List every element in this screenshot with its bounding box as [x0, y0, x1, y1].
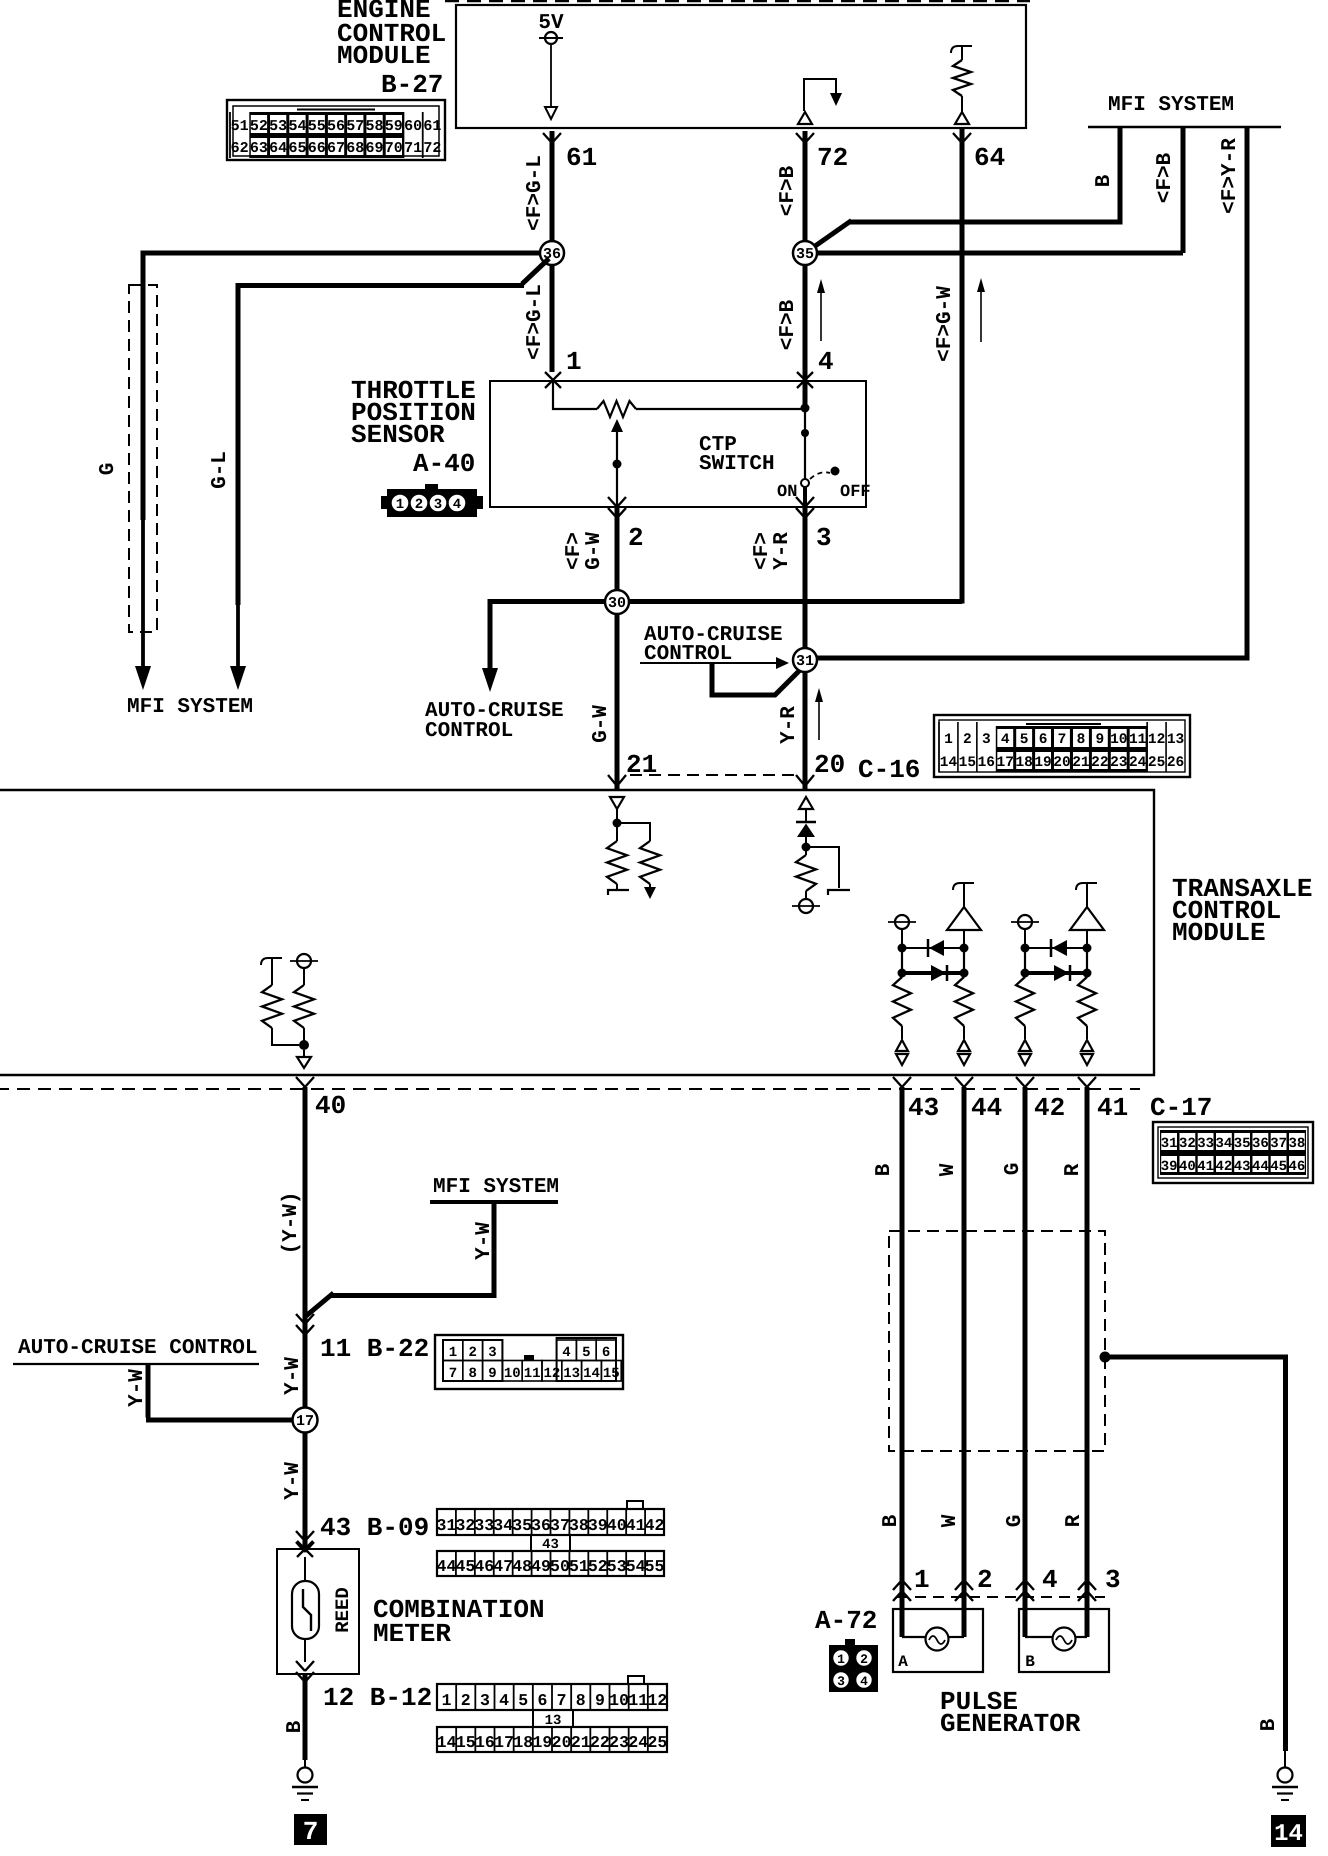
svg-text:60: 60 [404, 118, 422, 135]
svg-text:2: 2 [628, 523, 644, 553]
svg-text:B: B [873, 1163, 896, 1176]
svg-text:3: 3 [434, 497, 442, 513]
ground right [1272, 1768, 1298, 1801]
svg-text:5: 5 [582, 1345, 590, 1361]
svg-text:(Y-W): (Y-W) [280, 1191, 303, 1254]
label C-17 [1150, 1093, 1212, 1123]
signal direction arrow wire 4 [817, 279, 825, 341]
svg-text:11: 11 [524, 1366, 541, 1382]
svg-text:39: 39 [588, 1516, 608, 1535]
svg-text:41: 41 [1197, 1159, 1214, 1175]
svg-text:52: 52 [588, 1557, 608, 1576]
svg-text:66: 66 [308, 140, 326, 157]
svg-text:63: 63 [250, 140, 268, 157]
svg-text:52: 52 [250, 118, 268, 135]
svg-text:<F>G-L: <F>G-L [524, 155, 547, 231]
svg-text:19: 19 [1034, 755, 1051, 771]
svg-text:43: 43 [908, 1093, 939, 1123]
svg-text:64: 64 [269, 140, 287, 157]
svg-text:12: 12 [648, 1691, 668, 1710]
dashed connector line C-17 [0, 1088, 1140, 1090]
svg-text:OFF: OFF [840, 483, 871, 502]
svg-text:3: 3 [488, 1345, 496, 1361]
svg-text:54: 54 [288, 118, 306, 135]
combination meter box [277, 1549, 359, 1674]
wire 42 to pulse gen [1023, 1087, 1028, 1637]
svg-text:40: 40 [315, 1091, 346, 1121]
svg-text:CONTROL: CONTROL [425, 720, 513, 743]
svg-text:7: 7 [557, 1691, 567, 1710]
MFI SYSTEM bus top right [1088, 94, 1281, 127]
splice 17 [293, 1408, 318, 1433]
label B w43 [873, 1163, 896, 1176]
label <F> Y-R wire3 [751, 532, 794, 570]
svg-text:35: 35 [796, 246, 814, 263]
svg-text:65: 65 [288, 140, 306, 157]
svg-text:B: B [880, 1514, 903, 1527]
wire Y-W from MFI to wire40 [306, 1202, 497, 1316]
throttle position sensor box [490, 381, 866, 507]
svg-text:AUTO-CRUISE CONTROL: AUTO-CRUISE CONTROL [18, 1337, 257, 1360]
svg-text:GENERATOR: GENERATOR [940, 1709, 1081, 1739]
svg-text:25: 25 [1148, 755, 1165, 771]
harness dashed box right [889, 1231, 1105, 1451]
svg-text:56: 56 [327, 118, 345, 135]
connector A-40 [381, 484, 483, 517]
svg-text:17: 17 [997, 755, 1014, 771]
svg-text:7: 7 [1058, 732, 1067, 748]
svg-text:51: 51 [569, 1557, 589, 1576]
label (Y-W) [280, 1191, 303, 1254]
label R w41 [1062, 1163, 1085, 1176]
svg-text:<F>G-W: <F>G-W [934, 286, 957, 362]
svg-text:32: 32 [1179, 1136, 1196, 1152]
svg-text:MFI SYSTEM: MFI SYSTEM [127, 696, 253, 719]
svg-text:W: W [937, 1163, 960, 1176]
ECM terminal 61 [543, 133, 597, 173]
svg-text:72: 72 [817, 143, 848, 173]
svg-text:55: 55 [645, 1557, 665, 1576]
label B left [284, 1720, 307, 1733]
combination meter label [373, 1595, 545, 1649]
wire to auto-cruise arrow left [482, 599, 498, 692]
connector B-09 pinout [437, 1501, 665, 1576]
svg-text:18: 18 [1015, 755, 1032, 771]
svg-text:2: 2 [977, 1565, 993, 1595]
auto-cruise pointer arrow [640, 657, 789, 669]
svg-text:15: 15 [959, 755, 976, 771]
svg-text:43 B-09: 43 B-09 [320, 1513, 429, 1543]
svg-text:8: 8 [1077, 732, 1086, 748]
svg-text:G-W: G-W [583, 532, 606, 570]
svg-text:11 B-22: 11 B-22 [320, 1334, 429, 1364]
approach chevrons meter [296, 1531, 314, 1552]
TCM pin20 resistor [792, 855, 820, 913]
svg-text:R: R [1063, 1514, 1086, 1527]
wire 43 to pulse gen [900, 1087, 905, 1637]
label 21 [626, 750, 657, 780]
label Y-W mid [473, 1222, 496, 1260]
svg-text:2: 2 [461, 1691, 471, 1710]
svg-text:4: 4 [453, 497, 461, 513]
C-17 terminal 41 [1078, 1077, 1128, 1123]
svg-text:10: 10 [1110, 732, 1127, 748]
svg-text:4: 4 [499, 1691, 509, 1710]
svg-text:21: 21 [1072, 755, 1090, 771]
svg-text:50: 50 [550, 1557, 570, 1576]
label G-W below 30 [590, 705, 613, 743]
svg-text:5: 5 [518, 1691, 528, 1710]
TPS pin 4 mark [797, 347, 834, 388]
svg-text:41: 41 [1097, 1093, 1128, 1123]
svg-text:34: 34 [493, 1516, 513, 1535]
svg-text:14: 14 [1274, 1821, 1303, 1848]
svg-text:36: 36 [531, 1516, 551, 1535]
wire Y-W from auto-cruise to splice 17 [146, 1364, 294, 1420]
connector A-72 [829, 1639, 878, 1692]
svg-text:61: 61 [566, 143, 597, 173]
connector C-17 pinout [1153, 1122, 1313, 1183]
tap to ground branch [1100, 1352, 1286, 1768]
svg-text:Y-R: Y-R [771, 532, 794, 570]
svg-text:SWITCH: SWITCH [699, 453, 775, 476]
label <F>B right [1154, 152, 1177, 203]
label B [1093, 174, 1116, 187]
svg-text:20: 20 [814, 750, 845, 780]
label R lower w41 [1063, 1514, 1086, 1527]
svg-text:R: R [1062, 1163, 1085, 1176]
svg-text:67: 67 [327, 140, 345, 157]
wire 64 to splice 30 [960, 127, 965, 604]
svg-text:3: 3 [480, 1691, 490, 1710]
svg-text:17: 17 [296, 1413, 314, 1430]
svg-text:46: 46 [1288, 1159, 1305, 1175]
label <F> G-W wire2 [563, 532, 606, 570]
svg-text:20: 20 [1053, 755, 1070, 771]
transaxle control module box [0, 790, 1154, 1075]
svg-text:57: 57 [346, 118, 364, 135]
meter exit chevrons [296, 1661, 314, 1682]
TPS potentiometer [553, 381, 805, 417]
svg-text:G: G [97, 463, 120, 476]
svg-text:13: 13 [563, 1366, 580, 1382]
TPS wiper arrow [611, 419, 623, 507]
svg-text:W: W [939, 1514, 962, 1527]
svg-text:10: 10 [609, 1691, 629, 1710]
page ref 14 [1271, 1815, 1306, 1848]
ground left [292, 1768, 318, 1801]
TPS terminal 3 chevrons [796, 497, 814, 518]
svg-text:13: 13 [545, 1713, 562, 1729]
label 11 B-22 [320, 1334, 429, 1364]
C-17 terminal 40 [296, 1077, 346, 1121]
svg-text:58: 58 [366, 118, 384, 135]
svg-text:22: 22 [1091, 755, 1108, 771]
svg-text:4: 4 [1042, 1565, 1058, 1595]
TCM pin 40 pullup pair [261, 954, 318, 1068]
svg-text:23: 23 [1110, 755, 1127, 771]
svg-text:3: 3 [816, 523, 832, 553]
svg-text:42: 42 [645, 1516, 665, 1535]
splice 30 circle [605, 590, 629, 614]
svg-text:ON: ON [777, 483, 797, 502]
ECM terminal 72 [796, 133, 848, 173]
svg-text:8: 8 [576, 1691, 586, 1710]
svg-text:45: 45 [1270, 1159, 1287, 1175]
svg-text:37: 37 [1270, 1136, 1287, 1152]
svg-text:B: B [1093, 174, 1116, 187]
svg-text:4: 4 [1001, 732, 1010, 748]
svg-text:C-17: C-17 [1150, 1093, 1212, 1123]
connector B-12 pinout [437, 1676, 668, 1752]
dashed connector line C-16 [630, 774, 795, 776]
label <F>Y-R [1219, 138, 1242, 214]
svg-text:2: 2 [468, 1345, 476, 1361]
C-16 terminal 20 chevron [796, 775, 814, 786]
label B lower w43 [880, 1514, 903, 1527]
svg-text:A-40: A-40 [413, 449, 475, 479]
svg-text:36: 36 [1252, 1136, 1269, 1152]
pulse generator A box [893, 1609, 983, 1672]
pulse gen entry chevrons 1 [893, 1580, 911, 1601]
svg-text:9: 9 [1095, 732, 1104, 748]
svg-text:53: 53 [269, 118, 287, 135]
svg-text:24: 24 [628, 1733, 648, 1752]
svg-text:9: 9 [595, 1691, 605, 1710]
svg-text:SENSOR: SENSOR [351, 420, 445, 450]
engine control module box B-27 [445, 1, 1030, 128]
label REED [332, 1587, 354, 1633]
CTP switch label [699, 434, 775, 476]
svg-text:25: 25 [648, 1733, 668, 1752]
svg-text:16: 16 [978, 755, 995, 771]
label 43 B-09 [320, 1513, 429, 1543]
pulse gen pin 4 [1042, 1565, 1058, 1595]
svg-text:4: 4 [860, 1674, 868, 1689]
svg-text:5: 5 [1020, 732, 1029, 748]
svg-text:62: 62 [231, 140, 249, 157]
svg-text:44: 44 [1252, 1159, 1269, 1175]
svg-text:<F>B: <F>B [777, 165, 800, 216]
svg-text:MODULE: MODULE [1172, 918, 1266, 948]
MFI SYSTEM label bottom left [127, 696, 253, 719]
label Y-W auto-cruise [126, 1369, 149, 1407]
svg-text:1: 1 [944, 732, 953, 748]
svg-text:42: 42 [1215, 1159, 1232, 1175]
svg-text:3: 3 [982, 732, 991, 748]
svg-text:1: 1 [449, 1345, 457, 1361]
meter entry mark [297, 1541, 313, 1557]
C-17 terminal 44 [955, 1077, 1002, 1123]
auto-cruise control stub [13, 1337, 259, 1364]
C-16 terminal 21 chevron [608, 775, 626, 786]
label 2 [628, 523, 644, 553]
svg-text:47: 47 [493, 1557, 513, 1576]
svg-text:Y-W: Y-W [282, 1462, 305, 1500]
pulse generator B box [1019, 1609, 1109, 1672]
svg-text:18: 18 [513, 1733, 533, 1752]
svg-text:7: 7 [449, 1366, 457, 1382]
TCM pin 21 input triangle [610, 797, 624, 841]
svg-text:35: 35 [1234, 1136, 1251, 1152]
label G w42 [1002, 1163, 1025, 1176]
svg-text:43: 43 [542, 1537, 559, 1553]
svg-text:40: 40 [1179, 1159, 1196, 1175]
svg-text:11: 11 [1129, 732, 1147, 748]
svg-text:A-72: A-72 [815, 1606, 877, 1636]
svg-text:20: 20 [552, 1733, 572, 1752]
node TPS pin4 branch [801, 404, 810, 480]
svg-text:15: 15 [603, 1366, 620, 1382]
svg-text:43: 43 [1234, 1159, 1251, 1175]
svg-text:49: 49 [531, 1557, 551, 1576]
svg-text:6: 6 [1039, 732, 1048, 748]
label <F>G-L lower [524, 284, 547, 360]
svg-text:4: 4 [562, 1345, 570, 1361]
connector B-22 pinout [435, 1335, 623, 1389]
svg-text:7: 7 [303, 1817, 319, 1847]
svg-text:14: 14 [940, 755, 958, 771]
wire 3 to C-16 pin 20 [803, 507, 808, 790]
wire 44 to pulse gen [962, 1087, 967, 1637]
svg-text:40: 40 [607, 1516, 627, 1535]
svg-text:12 B-12: 12 B-12 [323, 1683, 432, 1713]
reed switch [292, 1557, 319, 1662]
wire 41 to pulse gen [1085, 1087, 1090, 1637]
svg-text:45: 45 [455, 1557, 475, 1576]
svg-text:B: B [1258, 1718, 1281, 1731]
auto-cruise control label mid [644, 624, 783, 666]
svg-text:11: 11 [628, 1691, 648, 1710]
TCM pin21 branch [617, 823, 650, 841]
connector C-16 pinout [934, 715, 1190, 777]
svg-text:42: 42 [1034, 1093, 1065, 1123]
TCM pin21 resistor right [640, 841, 660, 899]
svg-text:71: 71 [404, 140, 422, 157]
wire <F>Y-R from MFI to splice 31 [812, 127, 1250, 658]
engine control module label [337, 0, 446, 100]
svg-text:31: 31 [796, 653, 814, 670]
harness dashed box left [129, 285, 157, 632]
svg-text:30: 30 [608, 595, 626, 612]
svg-text:1: 1 [914, 1565, 930, 1595]
svg-text:3: 3 [837, 1674, 845, 1689]
wire 61 to TPS pin 1 [550, 131, 555, 372]
label B right ground [1258, 1718, 1281, 1731]
svg-text:8: 8 [468, 1366, 476, 1382]
svg-text:34: 34 [1215, 1136, 1232, 1152]
merge chevrons wire 40 [296, 1314, 314, 1335]
signal direction arrow wire 64 [977, 278, 985, 342]
wire 2 to C-16 pin 21 [615, 507, 620, 790]
svg-text:G-W: G-W [590, 705, 613, 743]
ECM output driver symbol pin 72 [798, 79, 842, 124]
svg-text:41: 41 [626, 1516, 646, 1535]
pulse gen entry chevrons 4 [1016, 1580, 1034, 1601]
svg-text:33: 33 [474, 1516, 494, 1535]
wire elbow from auto-cruise to splice 31 [712, 662, 800, 695]
svg-text:2: 2 [860, 1652, 868, 1667]
svg-text:69: 69 [366, 140, 384, 157]
svg-text:<F>G-L: <F>G-L [524, 284, 547, 360]
svg-text:51: 51 [231, 118, 249, 135]
svg-text:32: 32 [455, 1516, 475, 1535]
page ref 7 [294, 1814, 327, 1847]
svg-text:Y-W: Y-W [473, 1222, 496, 1260]
label G lower w42 [1004, 1515, 1027, 1528]
svg-text:44: 44 [437, 1557, 457, 1576]
svg-text:12: 12 [1148, 732, 1165, 748]
5V supply symbol in ECM [538, 12, 564, 119]
svg-text:14: 14 [583, 1366, 600, 1382]
svg-text:REED: REED [332, 1587, 354, 1633]
TCM pulse generator B input stage [1011, 883, 1104, 1065]
svg-text:MODULE: MODULE [337, 41, 431, 71]
C-17 terminal 43 [893, 1077, 939, 1123]
wire splice30 horizontal [490, 599, 962, 604]
svg-text:G: G [1004, 1515, 1027, 1528]
label Y-R below 31 [778, 706, 801, 744]
resistor in ECM pin 64 [951, 46, 972, 124]
wire <F>B from MFI to splice 35 [812, 127, 1183, 253]
svg-text:<F>B: <F>B [1154, 152, 1177, 203]
label W w44 [937, 1163, 960, 1176]
pulse gen connector dashes [897, 1596, 1105, 1598]
svg-text:2: 2 [415, 497, 423, 513]
svg-text:Y-W: Y-W [126, 1369, 149, 1407]
pulse gen pin 1 [914, 1565, 930, 1595]
svg-text:12: 12 [543, 1366, 560, 1382]
svg-text:24: 24 [1129, 755, 1147, 771]
pulse gen pin 2 [977, 1565, 993, 1595]
svg-text:2: 2 [963, 732, 972, 748]
TCM pin 20 input diode [796, 797, 816, 855]
splice 31 [793, 648, 817, 672]
svg-text:14: 14 [437, 1733, 457, 1752]
svg-text:<F>B: <F>B [777, 299, 800, 350]
svg-text:59: 59 [385, 118, 403, 135]
svg-text:A: A [898, 1653, 908, 1671]
svg-text:26: 26 [1167, 755, 1184, 771]
svg-text:19: 19 [533, 1733, 553, 1752]
CTP switch contacts [777, 467, 871, 508]
svg-text:<F>Y-R: <F>Y-R [1219, 138, 1242, 214]
svg-text:33: 33 [1197, 1136, 1214, 1152]
svg-text:1: 1 [566, 347, 582, 377]
label 12 B-12 [323, 1683, 432, 1713]
svg-text:64: 64 [974, 143, 1005, 173]
svg-text:MFI SYSTEM: MFI SYSTEM [433, 1176, 559, 1199]
transaxle control module label [1172, 874, 1312, 948]
signal direction arrow wire 20 [815, 688, 823, 740]
svg-text:1: 1 [442, 1691, 452, 1710]
svg-text:13: 13 [1167, 732, 1184, 748]
svg-text:B: B [1025, 1653, 1035, 1671]
svg-text:B: B [284, 1720, 307, 1733]
TPS pin 1 mark [545, 347, 582, 388]
svg-text:31: 31 [437, 1516, 457, 1535]
wire 40 to combination meter [303, 1087, 308, 1549]
svg-text:METER: METER [373, 1619, 451, 1649]
svg-text:1: 1 [837, 1652, 845, 1667]
splice 35 [793, 241, 817, 265]
svg-text:MFI SYSTEM: MFI SYSTEM [1108, 94, 1234, 117]
splice 36 [540, 241, 564, 265]
svg-text:31: 31 [1161, 1136, 1178, 1152]
label W lower w44 [939, 1514, 962, 1527]
svg-text:48: 48 [512, 1557, 532, 1576]
svg-text:37: 37 [550, 1516, 570, 1535]
